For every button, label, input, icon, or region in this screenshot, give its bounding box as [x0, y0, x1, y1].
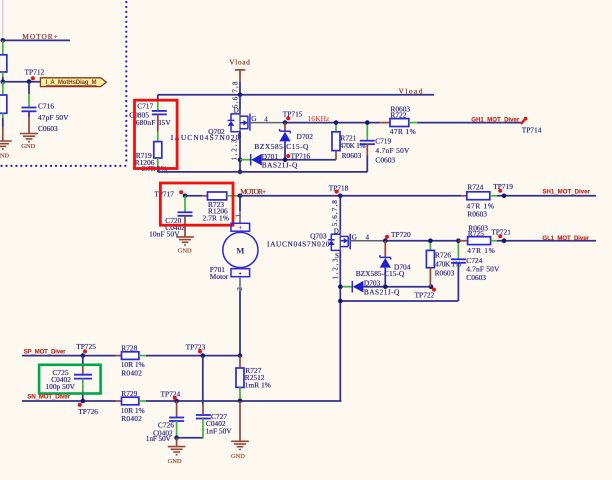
ground (C720): [176, 237, 194, 245]
svg-text:TP719: TP719: [493, 182, 513, 191]
testpoint TP724 marker: [173, 396, 177, 400]
node TP720 junction: [383, 238, 388, 243]
highlight box (red) around C717/R719: [135, 100, 178, 168]
wire R723 right stub (green): [227, 195, 237, 197]
resistor R727 top stub: [239, 356, 241, 368]
svg-text:TP723: TP723: [186, 342, 206, 351]
resistor R728 left stub: [116, 355, 122, 357]
wire R722 left stub: [380, 122, 390, 124]
wire R727 bottom stub (green): [239, 387, 241, 399]
wire SP row to motor junction: [146, 355, 240, 357]
testpoint TP726 marker: [78, 403, 82, 407]
node TP716 junction: [283, 157, 288, 162]
wire MOTOR+ to motor: [239, 196, 241, 224]
svg-text:GL1_MOT_Diver: GL1_MOT_Diver: [542, 235, 589, 242]
svg-text:R725: R725: [468, 229, 484, 238]
testpoint TP720 marker: [385, 235, 389, 239]
node motor/R727 junction: [238, 353, 243, 358]
wire source return horizontal: [158, 171, 367, 173]
svg-text:C0603: C0603: [38, 124, 58, 133]
svg-text:C719: C719: [375, 137, 391, 146]
capacitor C720 top lead: [184, 196, 186, 212]
svg-text:TP720: TP720: [391, 230, 411, 239]
node Vload rail junction: [238, 93, 243, 98]
wire left vertical between junction and resistor: [2, 40, 4, 55]
svg-text:C716: C716: [38, 102, 54, 111]
svg-text:M: M: [236, 245, 244, 255]
svg-text:D702: D702: [297, 132, 314, 141]
capacitor C716: [22, 108, 37, 112]
svg-text:R724: R724: [467, 182, 483, 191]
ground (C726): [168, 447, 186, 455]
svg-text:5,6,7,8: 5,6,7,8: [232, 81, 240, 108]
wire TP712 row horizontal: [3, 81, 41, 83]
svg-text:100p 50V: 100p 50V: [45, 382, 75, 391]
svg-text:R0603: R0603: [435, 269, 455, 278]
node TP719 junction: [502, 194, 507, 199]
svg-text:R0402: R0402: [121, 368, 142, 377]
svg-text:470K 1%: 470K 1%: [435, 260, 461, 269]
wire TP722 row horizontal: [363, 286, 431, 288]
svg-text:TP716: TP716: [291, 152, 311, 161]
svg-text:1nF 50V: 1nF 50V: [146, 434, 172, 443]
wire C726/C727 bottom horizontal: [177, 437, 204, 439]
node TP725 junction: [81, 353, 86, 358]
svg-text:+: +: [238, 224, 242, 232]
node MOTOR+ junction: [1, 38, 6, 43]
svg-text:TP722: TP722: [415, 291, 435, 300]
testpoint TP716 marker: [286, 154, 290, 158]
testpoint TP717 marker: [179, 190, 183, 194]
svg-text:TP715: TP715: [283, 110, 303, 119]
svg-text:TP725: TP725: [76, 342, 96, 351]
resistor R722: [390, 119, 409, 127]
resistor R719: [154, 142, 162, 158]
wire left vertical below upper resistor: [2, 72, 4, 77]
svg-text:10nF 50V: 10nF 50V: [149, 230, 180, 239]
resistor (unlabeled, left edge upper): [0, 55, 7, 72]
transistor Q703: [328, 230, 350, 256]
svg-text:47R 1%: 47R 1%: [390, 127, 416, 136]
svg-text:GND: GND: [178, 247, 192, 254]
svg-text:1nF 50V: 1nF 50V: [206, 426, 233, 435]
diode D704 cathode lead: [384, 241, 386, 258]
testpoint TP714 marker (hook): [522, 119, 526, 123]
transistor Q702: [228, 109, 250, 137]
testpoint TP723 marker: [198, 350, 202, 354]
svg-text:1,2,3: 1,2,3: [332, 258, 340, 279]
testpoint TP725 marker: [83, 349, 87, 353]
resistor R727: [236, 368, 244, 387]
testpoint TP712 marker: [31, 76, 35, 80]
capacitor C726: [169, 418, 184, 422]
ground (left edge): [0, 141, 12, 149]
wire R726 bottom lead: [429, 268, 431, 287]
node C719 top junction: [365, 120, 370, 125]
diode D701 cathode stub: [240, 159, 251, 161]
capacitor C725 top lead: [82, 356, 84, 374]
svg-text:SH1_MOT_Diver: SH1_MOT_Diver: [542, 189, 590, 196]
wire Q703 drain vertical: [339, 196, 341, 234]
svg-text:TP714: TP714: [522, 126, 542, 135]
resistor (unlabeled, left edge lower): [0, 95, 7, 113]
svg-text:1,2,3: 1,2,3: [231, 139, 239, 160]
ground (R727): [231, 441, 249, 449]
wire SP row horizontal: [22, 355, 116, 357]
testpoint TP718 marker: [335, 190, 339, 194]
capacitor C717: [152, 111, 167, 115]
capacitor C719 top stub: [366, 123, 368, 140]
capacitor C725: [74, 375, 92, 379]
svg-text:Vload: Vload: [229, 57, 250, 66]
diode D703 cathode stub: [340, 286, 352, 288]
wire R724 right stub (green): [490, 195, 498, 197]
wire C724 bottom lead: [457, 263, 459, 301]
resistor R729: [122, 397, 139, 405]
wire R721 bottom lead: [335, 151, 337, 160]
svg-text:GND: GND: [231, 453, 245, 460]
wire TP716 row horizontal: [262, 159, 336, 161]
wire C719 bottom lead: [366, 144, 368, 155]
svg-text:1mR 1%: 1mR 1%: [245, 380, 271, 389]
wire Q702 drain: [239, 95, 241, 114]
wire source return corner (Q703): [339, 400, 341, 402]
svg-text:IAUCN04S7N020: IAUCN04S7N020: [267, 239, 330, 248]
highlight box (red) around TP717/R723/C720: [160, 183, 233, 225]
node TP712 row left junction: [1, 79, 6, 84]
capacitor C720: [178, 212, 193, 216]
capacitor C726 top lead: [176, 401, 178, 417]
svg-text:R0603: R0603: [467, 210, 487, 219]
resistor R721 top stub: [335, 123, 337, 132]
wire gate net horizontal: [283, 122, 380, 124]
wire Vload vertical to junction: [239, 82, 241, 95]
wire TP723 vertical to C727: [202, 356, 204, 415]
node TP726 junction: [81, 399, 86, 404]
svg-text:47pF 50V: 47pF 50V: [38, 113, 69, 122]
svg-text:5,6,7,8: 5,6,7,8: [331, 200, 339, 226]
resistor R725: [468, 237, 491, 245]
wire gate net horizontal (Q703): [383, 240, 458, 242]
svg-text:TP718: TP718: [329, 184, 349, 193]
diode D702 cathode lead: [284, 123, 286, 131]
wire SN row to source return: [146, 400, 341, 402]
node TP718 junction: [338, 194, 343, 199]
svg-text:GH1_MOT_Diver: GH1_MOT_Diver: [471, 117, 520, 124]
svg-text:MOTOR+: MOTOR+: [22, 32, 58, 41]
capacitor C724 top stub: [457, 241, 459, 259]
svg-text:BAS21J-Q: BAS21J-Q: [262, 160, 298, 169]
wire C720 bottom lead: [184, 216, 186, 237]
svg-text:R726: R726: [435, 251, 451, 260]
node TP724 junction: [174, 399, 179, 404]
wire SH1/MOTOR+ row horizontal: [240, 195, 461, 197]
node TP723 junction: [201, 353, 206, 358]
node Q702 source junction (D701): [238, 157, 243, 162]
svg-text:R722: R722: [390, 111, 406, 120]
wire R729 right stub (green): [139, 400, 146, 402]
svg-text:IAUCN04S7N020: IAUCN04S7N020: [171, 133, 240, 142]
wire Q702 source: [239, 132, 241, 172]
svg-text:TP726: TP726: [78, 407, 98, 416]
capacitor C727: [196, 415, 211, 419]
svg-text:C0603: C0603: [466, 273, 486, 282]
node Q702 source junction (return): [238, 170, 243, 175]
node C724 top junction: [456, 238, 461, 243]
wire C725 bottom lead: [82, 379, 84, 401]
svg-text:TP712: TP712: [25, 68, 45, 77]
testpoint TP721 marker: [498, 234, 502, 238]
wire D702 anode lead: [284, 141, 286, 159]
wire SN row horizontal: [22, 400, 116, 402]
resistor R723: [208, 192, 227, 200]
flag I_A_MotHsDiag_M: [40, 78, 106, 87]
node R726 top junction: [428, 238, 433, 243]
power port Vload (top): [229, 57, 250, 82]
svg-text:BZX585-C15-Q: BZX585-C15-Q: [254, 142, 309, 151]
wire Vload horizontal rail: [158, 94, 434, 96]
svg-text:16KHz: 16KHz: [308, 114, 331, 123]
sheet boundary dotted line (horizontal): [2, 165, 127, 167]
svg-text:TP724: TP724: [161, 390, 181, 399]
capacitor C724: [451, 259, 466, 263]
node R721 top junction: [334, 120, 339, 125]
svg-text:R0603: R0603: [342, 151, 362, 160]
wire MOTOR+ horizontal (top-left): [3, 39, 70, 41]
node D703 junction: [338, 284, 343, 289]
svg-text:BAS21J-Q: BAS21J-Q: [364, 288, 400, 297]
wire C716 top lead: [28, 82, 30, 95]
node TP715 junction: [283, 120, 288, 125]
svg-text:470K 1%: 470K 1%: [340, 141, 366, 150]
capacitor C719: [360, 141, 375, 145]
wire Q703 gate pin: [350, 240, 383, 242]
wire R719 bottom lead: [157, 158, 159, 172]
node TP712 junction: [27, 79, 32, 84]
testpoint TP719 marker: [498, 189, 502, 193]
svg-text:4.7nF 50V: 4.7nF 50V: [375, 146, 410, 155]
highlight box (green) around C725: [39, 365, 101, 394]
wire GH1 net horizontal: [417, 122, 523, 124]
resistor R721: [332, 132, 340, 151]
svg-text:680nF 35V: 680nF 35V: [136, 118, 172, 127]
svg-text:C0603: C0603: [375, 155, 395, 164]
svg-text:C717: C717: [137, 102, 153, 111]
svg-text:47R 1%: 47R 1%: [467, 246, 495, 255]
svg-text:TP721: TP721: [491, 228, 511, 237]
wire faint stub above MOTOR+ junction: [2, 0, 4, 40]
resistor R726 top stub: [429, 241, 431, 251]
node TP721 junction: [502, 238, 507, 243]
svg-text:GND: GND: [168, 458, 182, 465]
svg-text:GND: GND: [0, 152, 9, 159]
testpoint TP715 marker: [286, 116, 290, 120]
svg-text:R0402: R0402: [121, 414, 142, 423]
wire C717 top lead from Vload rail: [157, 95, 159, 110]
wire C716 bottom lead: [28, 111, 30, 117]
svg-text:TP717: TP717: [154, 190, 174, 199]
resistor R723 left stub: [202, 195, 207, 197]
wire R728 right stub (green): [139, 355, 146, 357]
svg-text:R728: R728: [121, 343, 137, 352]
resistor R728: [122, 352, 139, 360]
wire motor bottom lead: [239, 277, 241, 356]
sheet boundary dotted line (vertical): [125, 2, 127, 164]
wire SH1 net to edge: [497, 195, 596, 197]
node C724 return junction: [338, 299, 343, 304]
wire R725 right stub (green): [491, 240, 498, 242]
resistor R724 left stub: [461, 195, 467, 197]
wire R727 to ground: [239, 401, 241, 441]
diode D701 (BAS21J-Q): [251, 154, 262, 166]
svg-text:Motor: Motor: [210, 272, 229, 281]
motor P701: [223, 223, 258, 276]
svg-text:GND: GND: [21, 143, 35, 150]
resistor R729 left stub: [116, 400, 122, 402]
diode D703 (BAS21J-Q): [352, 281, 363, 293]
resistor R725 left stub: [458, 240, 467, 242]
node D704 anode junction: [383, 284, 388, 289]
wire C726 bottom lead: [176, 421, 178, 438]
wire C724 return horizontal: [340, 300, 458, 302]
wire left vertical below lower resistor: [2, 113, 4, 118]
svg-text:2.7R 1%: 2.7R 1%: [203, 213, 230, 222]
svg-text:Vload: Vload: [399, 86, 423, 95]
node TP722 junction: [429, 284, 434, 289]
node R727 bottom junction: [238, 398, 243, 403]
diode D704 (zener BZX585-C15-Q): [380, 255, 391, 268]
testpoint TP722 marker: [432, 288, 436, 292]
wire GL1 net to edge: [497, 240, 596, 242]
wire R723 to MOTOR+ junction: [237, 195, 240, 197]
svg-text:R729: R729: [121, 389, 137, 398]
wire C726 to ground: [176, 438, 178, 447]
resistor R726: [426, 250, 434, 267]
svg-text:SN_MOT_Diver: SN_MOT_Diver: [27, 394, 70, 401]
node MOTOR+ motor junction: [238, 194, 243, 199]
wire C727 bottom lead: [202, 419, 204, 438]
wire TP717 row horizontal: [185, 195, 202, 197]
wire D704 anode lead: [384, 268, 386, 287]
svg-text:SP_MOT_Diver: SP_MOT_Diver: [24, 348, 67, 355]
diode D702 (zener BZX585-C15-Q): [279, 129, 290, 142]
wire C717 to R719: [157, 114, 159, 141]
wire R722 right stub (green): [409, 122, 418, 124]
wire Q702 gate pin: [250, 122, 283, 124]
node TP717 junction: [183, 194, 188, 199]
node C726 bottom junction: [174, 435, 179, 440]
svg-text:1: 1: [234, 214, 242, 218]
svg-text:BZX585-C15-Q: BZX585-C15-Q: [356, 269, 405, 278]
wire Q703 source vertical: [339, 251, 341, 401]
ground (C716): [20, 134, 38, 142]
resistor R724: [467, 192, 490, 200]
svg-text:MOTOR+: MOTOR+: [240, 187, 266, 196]
wire left vertical between TP712 row and lower resistor: [2, 82, 4, 95]
